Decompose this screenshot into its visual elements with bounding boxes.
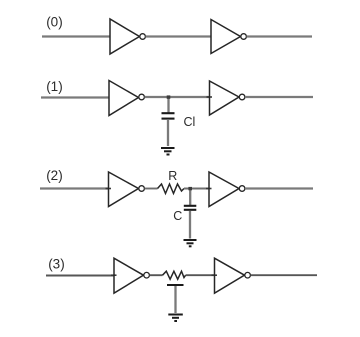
svg-text:R: R	[168, 169, 177, 183]
svg-text:(3): (3)	[48, 257, 64, 272]
inverter U8	[215, 258, 251, 293]
value label R	[168, 169, 177, 183]
node label (2)	[46, 168, 63, 183]
inverter U5	[109, 172, 145, 207]
wire row0 input	[42, 35, 110, 37]
ground row2	[184, 240, 197, 246]
capacitor plate row3	[167, 284, 184, 286]
node label (0)	[46, 15, 63, 30]
wire row0 mid	[146, 35, 212, 37]
node label (1)	[46, 79, 63, 94]
wire row1 mid	[145, 96, 210, 98]
wire row3 input	[46, 275, 114, 277]
wire row3 output	[251, 274, 318, 276]
wire row3 cap to ground	[174, 286, 176, 313]
wire tick U4 input	[207, 96, 213, 98]
inverter U1	[110, 19, 145, 54]
wire row2 resistor to inverter with junction	[184, 188, 209, 190]
svg-text:C: C	[173, 209, 182, 223]
value label Cl	[184, 115, 196, 129]
svg-text:(2): (2)	[46, 168, 63, 183]
wire row3 resistor to inverter	[186, 274, 215, 276]
node label (3)	[48, 257, 64, 272]
capacitor C	[184, 206, 197, 210]
inverter U7	[114, 258, 149, 293]
wire row2 cap to ground	[189, 211, 191, 239]
inverter U6	[209, 172, 245, 207]
junction node row1	[167, 95, 171, 98]
wire row3 bubble to resistor	[150, 274, 163, 276]
wire tick U5 input	[106, 188, 112, 190]
inverter U3	[109, 81, 144, 116]
wire tick U7 input	[111, 274, 117, 276]
wire row2 bubble to resistor	[145, 188, 158, 190]
wire tick U6 input	[206, 188, 212, 190]
wire row2 junction stub	[189, 189, 191, 206]
svg-text:Cl: Cl	[184, 115, 196, 129]
wire row2 input	[40, 187, 109, 189]
ground row3	[168, 315, 183, 322]
inverter U2	[211, 20, 246, 54]
wire row0 output	[247, 35, 313, 37]
svg-text:(0): (0)	[46, 15, 63, 30]
ground row1	[161, 148, 175, 155]
wire row1 input	[41, 96, 109, 98]
wire tick U8 input	[212, 274, 218, 276]
wire row2 output	[245, 187, 313, 189]
junction node row2	[188, 187, 192, 190]
wire row1 output	[245, 96, 313, 98]
resistor R	[158, 184, 185, 194]
wire row1 cap to ground	[167, 120, 169, 146]
inverter U4	[210, 81, 245, 115]
resistor row3	[163, 271, 186, 279]
wire row1 junction stub	[167, 97, 169, 113]
capacitor Cl	[162, 113, 175, 118]
value label C	[173, 209, 182, 223]
svg-text:(1): (1)	[46, 79, 63, 94]
